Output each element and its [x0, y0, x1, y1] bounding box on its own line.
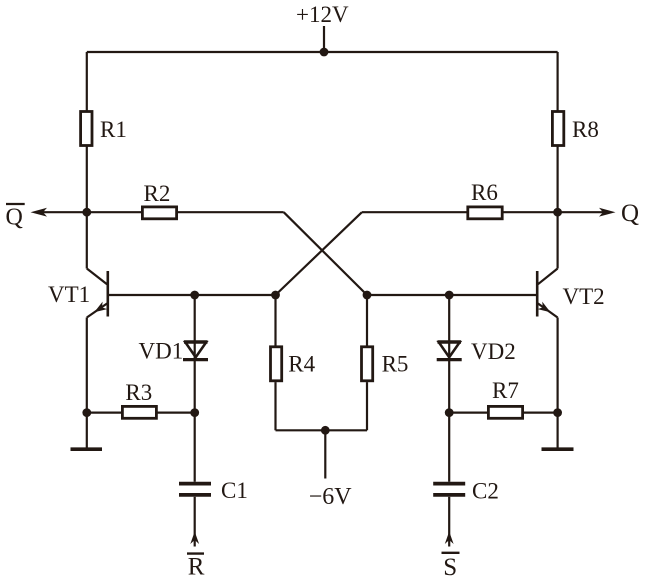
resistor R8 [552, 112, 598, 146]
resistor R2 [142, 181, 176, 219]
input arrow R-bar [187, 532, 205, 581]
node VD2 R7 C2 junction [445, 408, 454, 417]
node -6V junction [321, 426, 330, 435]
wire cross to R6 [362, 211, 468, 213]
ground right [542, 413, 574, 450]
output arrow Q-bar [31, 208, 87, 217]
svg-text:R7: R7 [492, 378, 519, 403]
capacitor C1 [179, 413, 248, 547]
node Q [553, 208, 562, 217]
svg-text:R8: R8 [572, 117, 599, 142]
power +12V [296, 2, 349, 52]
svg-text:R6: R6 [471, 180, 498, 205]
wire bottom middle [276, 429, 368, 431]
diode VD1 [139, 295, 209, 413]
wire VT1 emitter down [86, 318, 88, 413]
svg-text:R2: R2 [144, 181, 171, 206]
node top center [320, 48, 329, 57]
capacitor C2 [433, 413, 499, 547]
wire left rail upper [86, 52, 88, 111]
resistor R7 [449, 378, 557, 418]
resistor R6 [468, 180, 502, 219]
wire right rail middle [556, 146, 558, 269]
resistor R1 [81, 112, 127, 146]
svg-text:S: S [443, 554, 457, 581]
wire cross-coupling left-to-right [284, 212, 367, 295]
wire left rail middle [86, 146, 88, 269]
ground left [71, 413, 103, 450]
wire VT2 base line [367, 294, 536, 296]
svg-text:R5: R5 [382, 351, 409, 376]
svg-text:C2: C2 [472, 479, 499, 504]
wire Q-bar node to R2 [87, 211, 143, 213]
node cross right base [363, 291, 372, 300]
wire cross-coupling right-to-left [276, 212, 362, 295]
svg-text:R: R [188, 554, 205, 581]
wire R6 to Q node [502, 211, 557, 213]
svg-text:R4: R4 [288, 351, 315, 376]
svg-text:+12V: +12V [296, 2, 349, 27]
wire VT2 emitter down [556, 318, 558, 413]
resistor R5 [362, 295, 409, 430]
svg-text:VD2: VD2 [471, 339, 516, 364]
node R3 C1 junction [190, 408, 199, 417]
svg-text:Q: Q [621, 200, 639, 227]
diode VD2 [437, 295, 516, 413]
svg-text:VT2: VT2 [563, 284, 605, 309]
node Q-bar [82, 208, 91, 217]
svg-text:VD1: VD1 [139, 339, 184, 364]
wire top rail [87, 51, 558, 53]
node VD1 base [190, 291, 199, 300]
svg-text:R3: R3 [125, 380, 152, 405]
wire VT1 base line [109, 294, 276, 296]
node emitter right [553, 408, 562, 417]
wire right rail upper [556, 52, 558, 111]
input arrow S-bar [442, 532, 460, 582]
svg-text:R1: R1 [100, 117, 127, 142]
transistor VT1 [48, 269, 108, 318]
svg-text:C1: C1 [221, 478, 248, 503]
svg-text:Q: Q [6, 205, 23, 231]
transistor VT2 [537, 269, 604, 318]
node emitter left [82, 408, 91, 417]
resistor R3 [87, 380, 195, 418]
label Q-bar [6, 204, 25, 231]
node VD2 base [445, 291, 454, 300]
svg-text:VT1: VT1 [48, 282, 90, 307]
power -6V [309, 430, 353, 510]
node cross left base [271, 291, 280, 300]
output arrow Q [558, 208, 616, 217]
wire R2 to cross [177, 211, 284, 213]
resistor R4 [271, 295, 316, 430]
svg-text:−6V: −6V [309, 484, 353, 510]
